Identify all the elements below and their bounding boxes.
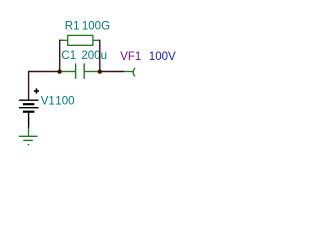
svg-text:R1100G: R1100G	[65, 21, 110, 33]
wire node B to probe	[100, 71, 125, 73]
wire battery-top to node A	[29, 72, 60, 100]
battery V1	[19, 100, 39, 128]
capacitor C1	[62, 63, 99, 78]
svg-text:VF1: VF1	[120, 51, 141, 63]
wire right riser resistor to node B	[98, 40, 100, 71]
svg-text:V1100: V1100	[41, 95, 75, 107]
battery plus sign	[34, 88, 39, 93]
node B junction dot	[98, 69, 102, 73]
wire left riser node A to resistor	[60, 40, 62, 72]
node A junction dot	[57, 69, 61, 73]
ground	[19, 127, 38, 144]
svg-text:100V: 100V	[149, 51, 176, 63]
resistor R1	[60, 35, 99, 45]
voltage pin VF1	[124, 68, 135, 77]
